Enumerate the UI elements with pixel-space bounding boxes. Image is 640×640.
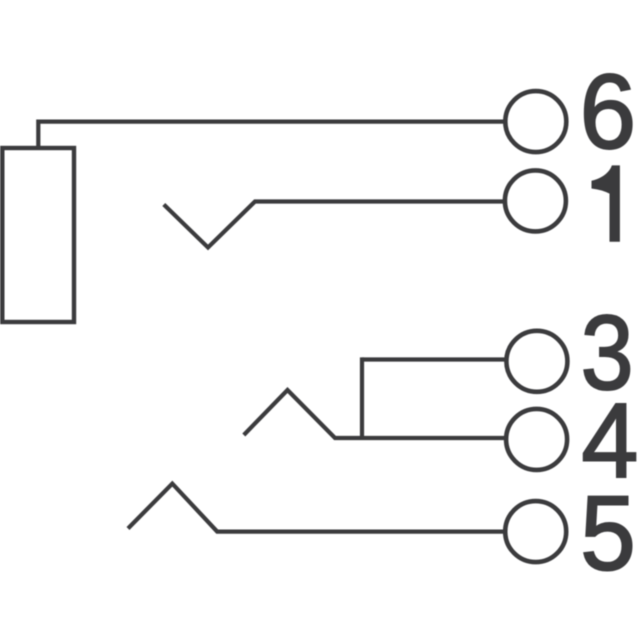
svg-text:5: 5 [580, 474, 636, 592]
svg-text:6: 6 [580, 53, 637, 171]
